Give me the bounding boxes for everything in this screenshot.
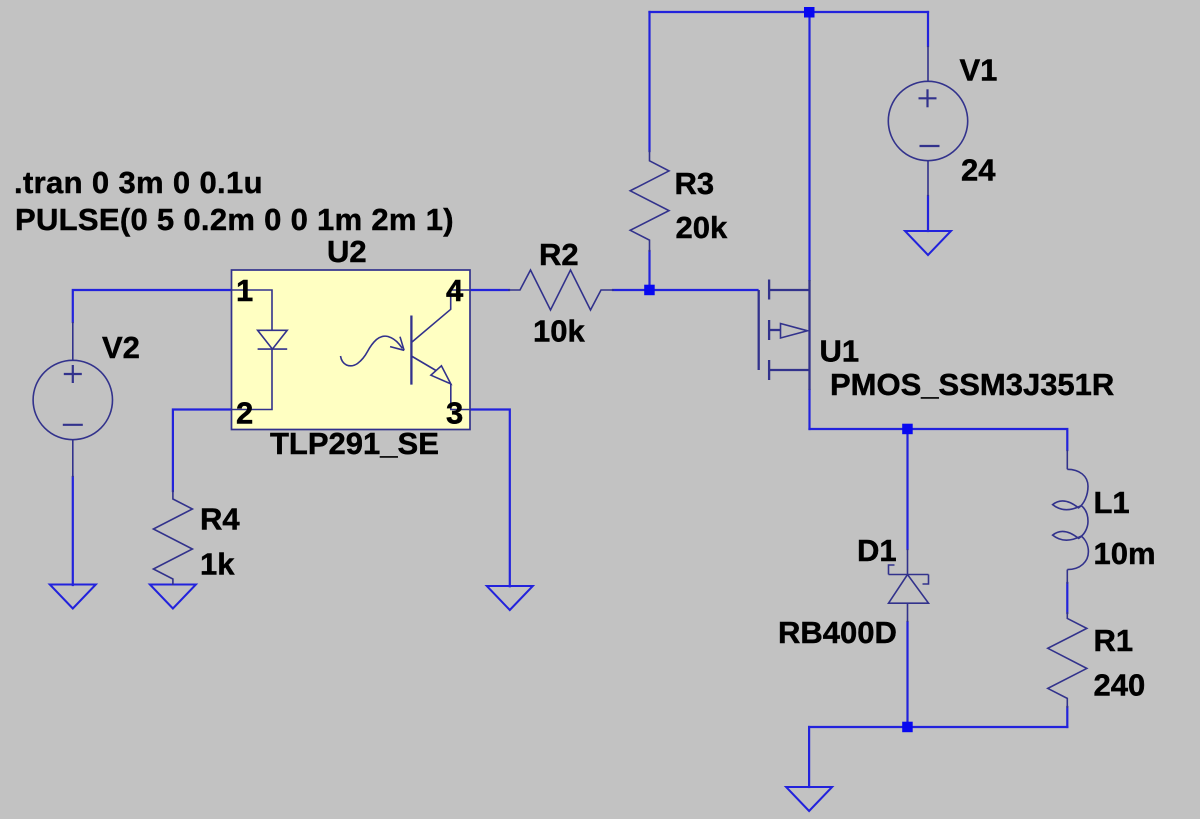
resistor R1	[1048, 612, 1087, 708]
U2 light arrow	[341, 336, 405, 366]
svg-text:PMOS_SSM3J351R: PMOS_SSM3J351R	[830, 367, 1114, 402]
ground V1	[905, 231, 951, 255]
diode D1	[889, 549, 929, 622]
wire bottom rail	[809, 726, 1067, 728]
svg-text:10m: 10m	[1094, 536, 1156, 571]
wire R3 to junction	[648, 251, 650, 290]
wire D1 bottom	[906, 622, 908, 727]
svg-text:R3: R3	[675, 166, 715, 201]
mosfet U1	[759, 280, 810, 391]
svg-text:20k: 20k	[676, 210, 728, 245]
voltage source V2	[33, 322, 112, 477]
svg-text:D1: D1	[857, 533, 897, 568]
svg-text:PULSE(0 5 0.2m 0 0 1m 2m 1): PULSE(0 5 0.2m 0 0 1m 2m 1)	[15, 202, 454, 237]
resistor R2	[508, 270, 614, 310]
node bottom junction	[902, 722, 913, 733]
wire mosfet source rail	[808, 12, 810, 280]
wire L1 to R1	[1066, 583, 1068, 613]
ground bottom	[786, 787, 832, 811]
U2 phototransistor	[411, 290, 470, 410]
node gate junction	[644, 285, 655, 296]
wire V2 to box pin1	[73, 290, 232, 322]
svg-text:V1: V1	[960, 53, 998, 88]
svg-text:L1: L1	[1094, 485, 1130, 520]
svg-text:2: 2	[236, 396, 253, 431]
ground R4	[150, 585, 196, 609]
voltage source V1	[888, 46, 967, 196]
wire V1 top	[927, 12, 929, 46]
svg-text:V2: V2	[102, 330, 140, 365]
svg-text:U1: U1	[820, 334, 860, 369]
svg-text:R2: R2	[539, 237, 579, 272]
wire R1 to bottom rail	[1066, 707, 1068, 727]
svg-text:.tran 0 3m 0 0.1u: .tran 0 3m 0 0.1u	[14, 165, 263, 200]
inductor L1	[1053, 450, 1089, 584]
svg-text:24: 24	[961, 153, 996, 188]
wire top rail	[650, 11, 929, 13]
wire D1 top	[906, 429, 908, 549]
wire box pin3 to ground	[470, 410, 510, 587]
svg-text:RB400D: RB400D	[778, 615, 897, 650]
U2 LED	[232, 290, 288, 410]
svg-text:1k: 1k	[200, 547, 235, 582]
wire V1 bottom to ground	[927, 196, 929, 231]
svg-text:1: 1	[236, 273, 253, 308]
wire rail to R3	[648, 12, 650, 151]
svg-text:R4: R4	[200, 502, 240, 537]
ground V2	[50, 585, 96, 609]
ground U2 pin3	[487, 586, 533, 610]
resistor R3	[630, 150, 669, 252]
wire bottom ground stem	[808, 727, 810, 787]
svg-text:3: 3	[446, 396, 463, 431]
svg-text:TLP291_SE: TLP291_SE	[270, 426, 439, 461]
wire mosfet drain down	[808, 390, 810, 429]
svg-text:R1: R1	[1094, 623, 1134, 658]
wire box pin4 to R2	[470, 289, 509, 291]
svg-text:240: 240	[1094, 668, 1146, 703]
svg-text:10k: 10k	[533, 314, 585, 349]
node top junction	[804, 7, 815, 18]
resistor R4	[153, 490, 192, 585]
wire junction to gate	[655, 289, 758, 291]
wire V2 bottom to ground	[72, 477, 74, 585]
svg-text:U2: U2	[327, 234, 367, 269]
wire R2 to junction	[613, 289, 645, 291]
wire box pin2 to R4	[173, 410, 232, 492]
svg-text:4: 4	[446, 273, 464, 308]
optocoupler U2 box	[232, 270, 471, 430]
node drain junction	[902, 424, 913, 435]
wire drain rail to L1	[810, 429, 1068, 450]
